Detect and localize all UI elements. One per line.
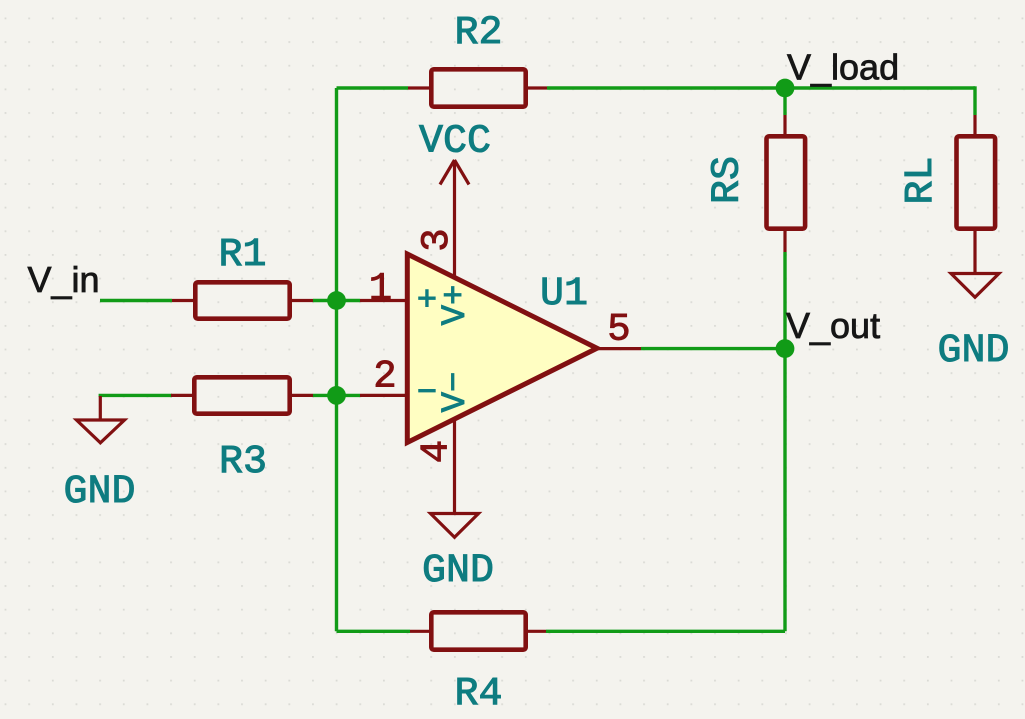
svg-text:1: 1 bbox=[369, 267, 392, 311]
wire RL drop bbox=[973, 86, 976, 115]
svg-text:R2: R2 bbox=[454, 11, 502, 56]
svg-text:V_in: V_in bbox=[28, 259, 100, 300]
ground op-amp V- bbox=[431, 514, 479, 538]
svg-text:V+: V+ bbox=[437, 285, 475, 326]
svg-text:V−: V− bbox=[437, 372, 475, 413]
wire R2 to V_load to RL bbox=[547, 86, 975, 89]
resistor RS bbox=[767, 115, 806, 252]
wire bottom to R4 right bbox=[546, 630, 785, 633]
resistor RL bbox=[957, 115, 996, 252]
svg-text:RS: RS bbox=[705, 156, 750, 204]
junction V_load bbox=[776, 79, 795, 98]
svg-text:R4: R4 bbox=[454, 672, 502, 717]
svg-text:R1: R1 bbox=[218, 233, 266, 278]
wire top to R2 bbox=[337, 86, 409, 89]
junction V_out bbox=[776, 339, 795, 358]
svg-text:U1: U1 bbox=[540, 272, 588, 317]
ground left bbox=[77, 396, 125, 443]
svg-text:GND: GND bbox=[63, 470, 135, 515]
resistor R2 bbox=[408, 69, 547, 106]
junction node A bbox=[327, 291, 346, 310]
wire vertical feedback bus bbox=[335, 88, 338, 631]
power VCC bbox=[440, 160, 469, 278]
wire R1 to node A bbox=[313, 299, 360, 302]
wire R3 to node B bbox=[313, 394, 360, 397]
svg-text:GND: GND bbox=[937, 329, 1009, 374]
wire V_load to RS bbox=[783, 88, 786, 115]
wire op-amp output to V_out bbox=[641, 347, 785, 350]
svg-text:V_load: V_load bbox=[787, 47, 899, 88]
svg-text:GND: GND bbox=[422, 549, 494, 594]
svg-text:R3: R3 bbox=[219, 440, 267, 485]
svg-text:2: 2 bbox=[373, 355, 396, 399]
ground RL bbox=[951, 252, 999, 297]
wire bottom to R4 left bbox=[337, 630, 411, 633]
svg-text:5: 5 bbox=[607, 308, 630, 352]
resistor R3 bbox=[171, 377, 313, 413]
wire V_in to R1 bbox=[100, 299, 172, 302]
svg-text:3: 3 bbox=[415, 228, 459, 251]
wire GND to R3 bbox=[99, 394, 172, 397]
junction node B bbox=[327, 386, 346, 405]
op-amp U1 bbox=[360, 254, 641, 513]
resistor R4 bbox=[410, 612, 546, 649]
wire RS to V_out to bottom bbox=[783, 252, 786, 631]
svg-text:VCC: VCC bbox=[419, 120, 491, 165]
svg-text:V_out: V_out bbox=[786, 305, 880, 346]
svg-text:4: 4 bbox=[415, 440, 459, 463]
resistor R1 bbox=[172, 282, 313, 318]
svg-text:+: + bbox=[417, 283, 437, 321]
svg-text:−: − bbox=[417, 375, 437, 413]
svg-text:RL: RL bbox=[899, 156, 944, 204]
